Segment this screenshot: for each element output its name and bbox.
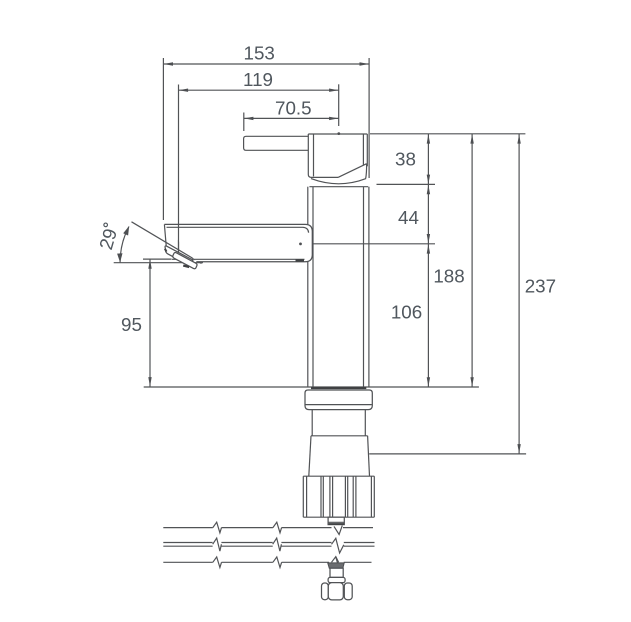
hose line 2 lower left: [163, 545, 212, 547]
body bottom dark band: [311, 387, 366, 389]
svg-text:95: 95: [121, 314, 142, 335]
dimension 237 vertical: [517, 134, 556, 454]
base flange: [305, 390, 372, 410]
svg-text:153: 153: [244, 43, 275, 64]
hose collar inner line: [328, 521, 344, 523]
housing left outer edge: [308, 134, 338, 177]
hose line 1 right segment: [343, 527, 373, 529]
svg-text:119: 119: [243, 69, 273, 90]
vertical hose break tail through line 3: [336, 557, 338, 563]
hose 2 break at 216: [213, 538, 222, 551]
spout tip left edge: [164, 224, 166, 245]
spout outline with rounded right cap: [164, 224, 312, 261]
hose line 3 left: [163, 561, 213, 563]
vertical hose V break below collar: [334, 525, 342, 534]
svg-text:38: 38: [395, 149, 416, 170]
vertical hose triangle break on line 3: [332, 557, 339, 563]
dimension 44 vertical: [398, 185, 430, 244]
hose 1 break at 216: [213, 522, 222, 533]
extension line 119 continues over spout to aerator: [178, 224, 180, 251]
shank left: [311, 410, 313, 436]
lever handle bar: [244, 136, 309, 150]
housing left inner line: [313, 134, 315, 176]
dimension 119 horizontal: [179, 69, 339, 92]
extension line y=387 (base / counter level): [144, 386, 479, 388]
dimension 38 vertical: [395, 134, 430, 387]
hatched collar above hex fitting: [328, 563, 345, 568]
body right outer edge: [368, 187, 370, 387]
thread section right edge: [368, 436, 370, 476]
hex nut left lobe: [322, 583, 329, 600]
svg-text:70.5: 70.5: [275, 97, 312, 118]
extension line left of 119 (aerator): [178, 85, 180, 253]
hose line 2 upper left: [163, 542, 212, 544]
aerator housing (slanted): [165, 246, 193, 266]
mounting nut top edge: [303, 475, 374, 477]
hose line 1 mid segment: [222, 527, 273, 529]
vertical hose zigzag break at line 2: [332, 538, 344, 553]
hex nut right lobe: [344, 583, 352, 600]
centre dot on housing top: [337, 132, 340, 135]
right extension line at faucet top y=133.8: [370, 133, 525, 135]
svg-text:106: 106: [391, 302, 422, 323]
hose line 2 upper right: [344, 542, 375, 544]
hex nut middle: [328, 583, 343, 600]
housing right outer edge: [366, 134, 368, 166]
spout bottom inner line: [172, 258, 305, 260]
hose line 2 lower mid: [221, 545, 272, 547]
spout top inner line: [167, 227, 309, 232]
right extension line y=453.9 (shank end, 237): [369, 453, 526, 455]
aerator housing left dark shade: [165, 249, 167, 252]
hex fitting ferrule: [330, 568, 343, 577]
body right inner line: [363, 187, 365, 387]
dimension 153 horizontal top: [163, 43, 369, 66]
hose line 1 segment to faucet: [282, 527, 332, 529]
thread section top line: [311, 435, 368, 437]
housing right inner line: [362, 134, 364, 165]
hose 3 break at 216: [213, 557, 222, 568]
hose line 2 lower right: [344, 545, 375, 547]
hose line 3 mid: [222, 561, 273, 563]
mounting nut bottom edge: [303, 516, 374, 518]
29 degree label (rotated): [95, 222, 122, 252]
body left inner line: [312, 187, 314, 387]
shank right: [364, 410, 366, 436]
aerator insert (protruding): [173, 253, 197, 269]
body left outer edge lower: [307, 262, 309, 387]
mounting nut ribs: [303, 476, 374, 517]
hose line 3 segment to fitting: [282, 561, 329, 563]
right extension line y=243.8 (44/106 boundary, spout centre): [308, 243, 435, 245]
housing right lower curve: [365, 164, 368, 179]
hose line 3 right: [344, 561, 372, 563]
hex fitting collar: [328, 577, 345, 582]
aerator insert dark shade: [183, 266, 189, 267]
dome arc (body top): [311, 179, 366, 184]
body left outer edge upper: [307, 187, 309, 225]
hose line 2 upper right-mid: [281, 542, 331, 544]
hose 1 break at 276: [273, 522, 282, 533]
body top line: [309, 186, 368, 188]
svg-text:44: 44: [398, 207, 419, 228]
svg-text:237: 237: [525, 276, 556, 297]
right extension line y=184.4 (38/44 boundary): [377, 183, 436, 185]
hose collar dark bottom: [329, 523, 344, 525]
extension line left of 70.5 (lever end): [243, 113, 245, 132]
handle housing top edge: [308, 133, 367, 135]
spout centre dot: [299, 243, 302, 246]
svg-text:188: 188: [433, 266, 464, 287]
hose 2 break at 276: [273, 538, 282, 551]
flange inner line: [305, 404, 372, 406]
svg-text:29: 29: [95, 226, 121, 252]
dimension 106 vertical: [391, 244, 430, 386]
housing diagonal bottom cut: [338, 164, 367, 178]
extension line right of 119/70.5 (body centre): [338, 84, 340, 126]
hose line 2 lower right-mid: [281, 545, 331, 547]
extension line right of 153 (body right): [368, 58, 370, 178]
hose 3 break at 276: [273, 557, 282, 568]
29 degree slant dimension line: [132, 222, 202, 264]
dimension 70.5 horizontal: [244, 97, 339, 120]
95 top tick extension line: [143, 258, 172, 260]
extension line left of 153 (spout tip): [162, 58, 164, 220]
hose line 2 upper mid: [221, 542, 272, 544]
thread section left edge: [309, 436, 311, 476]
dimension 188 vertical: [433, 134, 473, 387]
dimension 95 vertical left: [121, 259, 152, 387]
hose line 1 left segment: [163, 527, 213, 529]
hose collar below nut: [328, 517, 344, 524]
angle reference line under arc: [114, 262, 203, 264]
29 degree arc with arrows: [117, 226, 129, 263]
spout underside dark dash: [296, 259, 305, 261]
